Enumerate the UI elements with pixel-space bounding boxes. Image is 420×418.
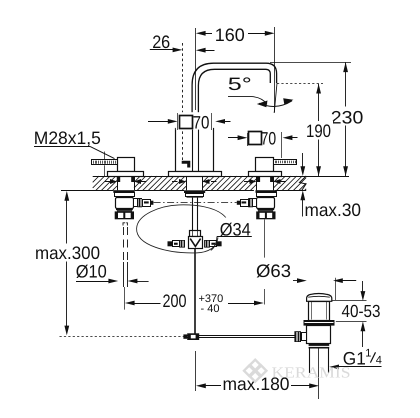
dim square70 right: extension lines: [247, 133, 249, 146]
dim max.30 upper arrow: [302, 153, 304, 169]
dim 40-53 arrows: [362, 281, 364, 294]
horizontal pop-up rod: [187, 335, 295, 337]
spout tube inner contour: [198, 69, 270, 163]
counter right break edge: [300, 176, 307, 190]
left shank clamp arrows: [105, 181, 111, 183]
bottom hose nut: [256, 211, 275, 219]
tee left arm knurl: [179, 240, 185, 248]
svg-text:max.30: max.30: [305, 200, 362, 220]
svg-text:40-53: 40-53: [342, 301, 381, 321]
valve outlet block: [116, 198, 134, 209]
middle clamp nut: [186, 194, 204, 197]
svg-text:max.300: max.300: [35, 243, 100, 263]
tube lines inside column: [192, 128, 194, 171]
right shank clamp arrows: [244, 181, 250, 183]
dim max.300 vertical line with arrows: [66, 197, 68, 244]
tee body: [189, 237, 203, 249]
tee left arm tip: [168, 241, 173, 246]
dim square70 spout: left arrow: [148, 121, 170, 123]
bottom hose nut: [115, 211, 134, 219]
tee left arm slotted cylinder: [173, 241, 180, 247]
ref dotted line spout mouth (190): [277, 83, 323, 85]
dim square70 spout: extension ticks: [177, 113, 179, 130]
5 degree leader: [228, 97, 267, 105]
svg-text:M28x1,5: M28x1,5: [34, 128, 101, 148]
hose corner marks: [123, 223, 125, 226]
dimension extension line at spout right (160): [274, 27, 276, 112]
dim Ø10 arrows: [76, 281, 111, 283]
svg-text:200: 200: [163, 291, 187, 311]
lower dark band: [257, 208, 274, 210]
middle supply pipe: [192, 198, 194, 230]
supply dash-dot line between valve outlets: [154, 202, 237, 204]
dim square70 spout: white backing: [176, 112, 213, 129]
svg-text:160: 160: [215, 25, 245, 45]
tee right arm knurl: [204, 240, 210, 248]
dim 160 line and arrows: [196, 31, 206, 36]
clamp nut: [257, 193, 277, 197]
dim square70 spout: square symbol: [180, 116, 193, 129]
svg-text:Ø34: Ø34: [220, 219, 251, 239]
right handle lever bar: [274, 160, 297, 165]
svg-text:1: 1: [365, 347, 371, 359]
svg-text:230: 230: [331, 108, 364, 128]
middle locknut dark band: [184, 190, 205, 193]
dim square70 right: right arrow: [283, 135, 293, 140]
detail balloon loop around tee: [137, 205, 231, 253]
pop-up rod hook inside spout: [182, 161, 191, 168]
dim 190 vertical: [318, 84, 320, 176]
drain double band: [309, 344, 330, 346]
drain tube: [309, 349, 311, 374]
left handle lever bar: [92, 160, 118, 165]
hose dashed section: [123, 227, 125, 262]
dashed hidden line in column: [182, 43, 184, 161]
side fitting knurled ring: [137, 198, 142, 207]
right shank thread marks: [257, 177, 260, 182]
side fitting hex collar: [134, 199, 138, 207]
side fitting slotted cylinder: [143, 200, 151, 207]
spout escutcheon plate: [169, 172, 222, 177]
spout tube outer contour: [192, 63, 277, 163]
side fitting slotted cylinder: [241, 200, 249, 207]
lower dark band: [116, 208, 133, 210]
dim Ø63 arrows: [293, 280, 300, 282]
svg-text:70: 70: [193, 113, 210, 133]
counter top surface line: [93, 176, 117, 178]
hose end extension line: [124, 287, 126, 310]
side fitting hex collar: [253, 199, 257, 207]
dim 200 right extension line: [264, 220, 266, 258]
svg-text:190: 190: [306, 121, 331, 141]
clamp nut: [115, 193, 135, 197]
watermark logo diamonds: [250, 360, 260, 370]
left handle axis centerline: [104, 152, 106, 160]
drain upper body: [309, 302, 330, 321]
spout column body: [176, 129, 214, 172]
svg-text:5°: 5°: [228, 74, 252, 94]
dim 200 right arrow: [228, 303, 256, 305]
tee right arm slotted cylinder: [210, 241, 217, 247]
svg-text:KERAMIS: KERAMIS: [272, 365, 351, 382]
dim square70 spout: right arrow: [215, 119, 225, 124]
valve outlet block: [257, 198, 275, 209]
rod junction left bit: [183, 334, 187, 338]
dim 230 vertical: [345, 62, 347, 176]
locknut dark band: [256, 190, 277, 193]
svg-text:4: 4: [376, 354, 382, 366]
left shank thread marks: [117, 177, 120, 182]
tee right arm tip: [217, 241, 222, 246]
left escutcheon plate: [108, 172, 144, 177]
svg-text:Ø10: Ø10: [76, 262, 107, 282]
ref line spout top (230): [270, 62, 351, 64]
side fitting knurled ring: [248, 198, 253, 207]
svg-text:70: 70: [261, 128, 277, 148]
shank gap edge lines: [117, 176, 119, 190]
rod junction block: [187, 333, 199, 340]
dim 26 arrows: [150, 49, 174, 51]
dim square70 right: square symbol: [249, 132, 262, 145]
right valve body: [256, 158, 274, 172]
dim square70 right: left arrow: [228, 137, 239, 139]
horizontal dotted ref line at rod level: [60, 336, 184, 338]
middle shank clamp arrows: [172, 181, 178, 183]
drain dome cap: [307, 294, 332, 302]
spout outlet 5-degree stream line: [274, 83, 277, 113]
right escutcheon plate: [249, 172, 282, 177]
drain flange dark band: [304, 320, 335, 326]
counter section hatching: [93, 176, 99, 182]
5 degree arc with arrows: [259, 101, 292, 107]
dim Ø63 extension line: [335, 278, 337, 300]
svg-text:Ø63: Ø63: [256, 261, 291, 281]
pop-up rod vertical: [194, 248, 196, 333]
locknut dark band: [113, 190, 134, 193]
hose solid section: [123, 262, 125, 287]
side fitting tip: [237, 201, 240, 205]
dim 40-53 ref lines: [332, 300, 367, 302]
drain lower body: [307, 326, 331, 344]
label G1 1/4 underline arrow: [329, 365, 339, 370]
dim max.180 arrows and text: [196, 383, 206, 388]
counter bottom line: [61, 190, 113, 192]
drain centerline: [318, 348, 320, 399]
dim max.180 extension line: [195, 351, 197, 391]
dim max.30 lower arrow and text: [300, 190, 305, 200]
label Ø34 underline and leader: [217, 236, 252, 238]
dim 200 left arrow: [125, 301, 135, 306]
drain left connector knurl: [294, 331, 301, 342]
tee hex nut: [190, 231, 201, 237]
svg-text:- 40: - 40: [201, 303, 220, 315]
side fitting tip: [150, 201, 153, 205]
label Ø34 white backing: [217, 218, 255, 237]
dim 160 extension lines: [195, 28, 197, 110]
left valve body: [118, 158, 135, 172]
drain left connector neck: [302, 333, 307, 341]
